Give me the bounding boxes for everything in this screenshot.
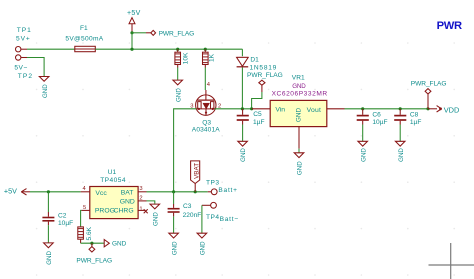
junction (rail at R2)	[204, 48, 207, 51]
svg-text:GND: GND	[153, 212, 160, 226]
svg-text:1µF: 1µF	[410, 119, 422, 126]
transistor Q3 A03401A	[190, 82, 221, 134]
wire junction to PWR_FLAG	[132, 32, 146, 34]
wire Q3 drain to VR1	[215, 108, 252, 110]
svg-text:GND: GND	[42, 84, 49, 98]
capacitor C2 10uF	[42, 212, 73, 227]
wire VR1 GND down	[298, 149, 300, 153]
wire TP4 to GND	[201, 205, 203, 233]
wire C3 to GND	[173, 216, 175, 233]
wire Q3 source left and down to battery rail	[174, 109, 197, 192]
regulator U2/VR1 block	[270, 75, 327, 127]
test point TP3	[206, 179, 238, 194]
svg-text:1K: 1K	[209, 53, 216, 62]
svg-text:GND: GND	[360, 148, 367, 162]
svg-text:PWR: PWR	[437, 20, 462, 32]
svg-text:Batt+: Batt+	[218, 187, 237, 194]
svg-text:C6: C6	[372, 111, 381, 118]
svg-text:5V−: 5V−	[14, 64, 27, 71]
ground (C5)	[238, 141, 248, 162]
wire TP2 to GND	[27, 58, 44, 77]
svg-text:GND: GND	[171, 241, 178, 255]
svg-text:TP4054: TP4054	[100, 177, 126, 184]
svg-text:VDD: VDD	[444, 106, 460, 115]
fuse F1	[65, 25, 103, 52]
test point TP2	[14, 55, 33, 80]
ground (C6)	[358, 141, 368, 162]
svg-text:5: 5	[83, 205, 86, 211]
power flag PF2 symbol	[259, 80, 265, 92]
svg-text:GND: GND	[296, 108, 303, 123]
svg-text:Vcc: Vcc	[95, 190, 107, 197]
svg-text:GND: GND	[292, 83, 306, 90]
svg-text:1N5819: 1N5819	[250, 64, 278, 71]
svg-text:XC6206P332MR: XC6206P332MR	[272, 91, 328, 98]
svg-text:Q3: Q3	[202, 120, 211, 127]
svg-text:TP4: TP4	[206, 214, 220, 221]
ground (VR1)	[294, 153, 304, 175]
pin Vin stub	[252, 108, 271, 110]
svg-text:PWR_FLAG: PWR_FLAG	[76, 257, 112, 264]
svg-text:GND: GND	[175, 88, 182, 102]
svg-text:GND: GND	[46, 250, 53, 264]
wire junction to C3	[173, 192, 175, 204]
wire C8 to GND	[399, 125, 401, 142]
wire U1 PROG down to R3	[80, 210, 83, 227]
svg-text:CHRG: CHRG	[114, 207, 134, 214]
svg-text:10µF: 10µF	[58, 220, 73, 227]
junction (+5V / PWR_FLAG)	[130, 31, 133, 34]
junction (C3 / Q3 wire)	[172, 190, 175, 193]
svg-text:PWR_FLAG: PWR_FLAG	[159, 31, 195, 38]
power symbol +5V (top)	[127, 10, 141, 33]
svg-text:5V@500mA: 5V@500mA	[65, 36, 103, 43]
junction (PWR_FLAG at R3)	[90, 242, 93, 245]
wire fuse to +5V junction	[95, 48, 242, 50]
wire U1 BAT to TP3	[147, 191, 208, 193]
ground (C8)	[395, 141, 405, 162]
wire TP1 to fuse	[27, 48, 75, 50]
wire C2 to GND	[47, 225, 49, 243]
svg-text:VBAT: VBAT	[193, 163, 200, 179]
test point TP1	[16, 27, 32, 52]
grid dots	[36, 42, 455, 276]
wire D1 to mid rail	[241, 68, 243, 109]
wire PWR_FLAG to rail	[252, 92, 262, 109]
svg-text:Vin: Vin	[275, 107, 285, 114]
wire Vout rail	[345, 108, 429, 110]
ground (TP4)	[197, 233, 207, 255]
svg-text:GND: GND	[112, 241, 127, 248]
svg-text:C8: C8	[410, 111, 419, 118]
svg-text:3: 3	[139, 186, 142, 192]
pin 4 Vcc	[81, 186, 90, 192]
wire U1 GND pin to ground	[147, 201, 155, 204]
svg-text:10K: 10K	[183, 52, 190, 64]
junction (rail at R1)	[176, 48, 179, 51]
ground (C2)	[44, 243, 54, 265]
junction (C8)	[399, 107, 402, 110]
junction (D1 / C5)	[241, 107, 244, 110]
hierarchical label VBAT	[191, 161, 201, 192]
junction (rail at +5V)	[130, 48, 133, 51]
svg-text:Vout: Vout	[307, 107, 322, 114]
capacitor C3 220nF	[168, 203, 202, 219]
svg-text:+5V: +5V	[4, 187, 17, 196]
svg-text:TP1: TP1	[17, 27, 32, 34]
ground (TP2)	[39, 77, 49, 99]
pin Vout stub	[327, 108, 345, 110]
svg-text:BAT: BAT	[121, 189, 134, 196]
diode D1 1N5819	[237, 57, 278, 72]
svg-text:C5: C5	[253, 111, 262, 118]
junction (PWR_FLAG / VDD)	[426, 107, 429, 110]
sheet corner marker	[429, 243, 474, 279]
svg-text:A03401A: A03401A	[192, 127, 220, 134]
svg-text:GND: GND	[200, 241, 207, 255]
svg-text:C3: C3	[183, 203, 192, 210]
wire junction to C2	[47, 192, 49, 212]
ground (R1)	[173, 80, 183, 102]
resistor R1 10K	[175, 49, 190, 67]
resistor R2 1K	[203, 49, 216, 67]
wire R2 to Q3 gate	[204, 68, 206, 91]
svg-text:1µF: 1µF	[253, 119, 265, 126]
svg-text:2: 2	[139, 195, 142, 201]
svg-text:GND: GND	[120, 199, 135, 206]
svg-text:TP3: TP3	[206, 179, 220, 186]
wire C6 to GND	[362, 125, 364, 142]
junction (C2)	[47, 190, 50, 193]
global label +5V (charger input)	[4, 187, 30, 196]
ground (C3)	[169, 233, 179, 255]
power flag label (near D1)	[247, 72, 283, 79]
capacitor C6 10uF	[357, 109, 388, 126]
svg-text:GND: GND	[297, 161, 304, 175]
svg-text:GND: GND	[398, 148, 405, 162]
pin GND stub of VR1	[298, 127, 300, 149]
svg-text:5.6K: 5.6K	[86, 226, 93, 240]
svg-text:TP2: TP2	[18, 73, 33, 80]
svg-text:U1: U1	[108, 169, 117, 176]
svg-text:D1: D1	[250, 57, 259, 64]
test point TP4	[202, 202, 239, 223]
wire +5V to U1 Vcc	[30, 191, 81, 193]
power label VDD	[428, 106, 459, 115]
svg-text:VR1: VR1	[292, 75, 305, 82]
global label GND (right of R3)	[104, 240, 126, 248]
pin 3 BAT	[138, 186, 146, 192]
wire +5V junction down to rail	[131, 33, 133, 49]
pin 2 GND	[138, 195, 146, 201]
power flag PF4	[76, 243, 112, 264]
wire R3 to GND label	[81, 242, 104, 244]
junction (PWR_FLAG drop)	[250, 107, 253, 110]
junction (C6)	[361, 107, 364, 110]
svg-text:GND: GND	[240, 148, 247, 162]
pin 5 PROG	[81, 205, 89, 211]
power flag PF3 (VDD)	[411, 80, 447, 109]
svg-text:10µF: 10µF	[372, 119, 387, 126]
svg-text:220nF: 220nF	[183, 212, 202, 219]
IC U1 TP4054 block	[90, 169, 138, 219]
svg-text:PWR_FLAG: PWR_FLAG	[247, 72, 283, 79]
capacitor C8 1uF	[394, 109, 421, 126]
svg-text:C2: C2	[58, 212, 67, 219]
svg-text:5V+: 5V+	[16, 35, 31, 42]
svg-text:PWR_FLAG: PWR_FLAG	[411, 80, 447, 87]
wire R1 to GND	[177, 68, 179, 81]
sheet name PWR	[437, 20, 462, 32]
power flag PF1	[146, 30, 194, 37]
wire rail corner down to D1	[241, 49, 243, 56]
svg-text:1: 1	[139, 206, 142, 212]
resistor R3 5.6K	[78, 226, 93, 243]
pin 1 CHRG with no-connect	[138, 206, 148, 213]
junction (VBAT)	[194, 190, 197, 193]
wire C5 to GND	[242, 125, 244, 142]
svg-text:F1: F1	[80, 25, 88, 32]
ground (U1)	[150, 204, 160, 226]
capacitor C5 1uF	[237, 109, 265, 126]
svg-text:+5V: +5V	[127, 10, 141, 17]
svg-text:PROG: PROG	[95, 207, 115, 214]
svg-text:Batt−: Batt−	[220, 216, 239, 223]
